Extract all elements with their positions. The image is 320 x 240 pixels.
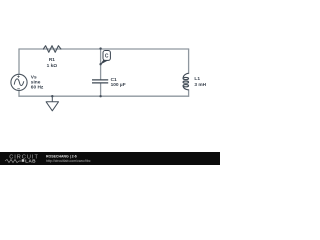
wire right vertical lower	[188, 90, 190, 96]
svg-text:L1: L1	[194, 76, 200, 82]
watermark CircuitLab logo	[5, 154, 39, 164]
junction dot node C top	[99, 47, 101, 49]
voltage source Vs (sine)	[11, 74, 44, 90]
junction dot capacitor bottom	[99, 95, 101, 97]
capacitor C1	[92, 77, 126, 88]
wire capacitor branch upper	[100, 49, 102, 80]
watermark bar	[0, 152, 220, 165]
svg-text:Vs: Vs	[31, 75, 37, 81]
svg-text:ROSECHANG | 2-6: ROSECHANG | 2-6	[46, 154, 77, 158]
junction dot ground	[51, 95, 53, 97]
wire top horizontal (node C net)	[19, 48, 189, 50]
svg-text:http://circuitlab.com/cwcc9bc: http://circuitlab.com/cwcc9bc	[46, 159, 91, 163]
node probe C (label bubble)	[101, 51, 111, 65]
wire right vertical upper	[188, 49, 190, 74]
svg-text:LAB: LAB	[25, 159, 36, 165]
resistor R1	[43, 46, 61, 69]
svg-text:1 kΩ: 1 kΩ	[47, 63, 58, 69]
wire capacitor branch lower	[100, 83, 102, 96]
svg-text:R1: R1	[49, 57, 55, 63]
svg-text:C1: C1	[111, 77, 117, 83]
svg-text:100 µF: 100 µF	[111, 82, 126, 88]
wire left vertical lower	[18, 91, 20, 97]
ground	[46, 96, 58, 111]
svg-text:60 Hz: 60 Hz	[31, 85, 44, 91]
svg-text:sine: sine	[31, 80, 41, 86]
inductor L1	[183, 73, 207, 90]
wire bottom horizontal (ground net)	[19, 95, 189, 97]
junction dot probe attach	[99, 63, 101, 65]
wire left vertical upper	[18, 49, 20, 74]
svg-text:C: C	[105, 54, 109, 60]
svg-text:3 mH: 3 mH	[194, 82, 206, 88]
